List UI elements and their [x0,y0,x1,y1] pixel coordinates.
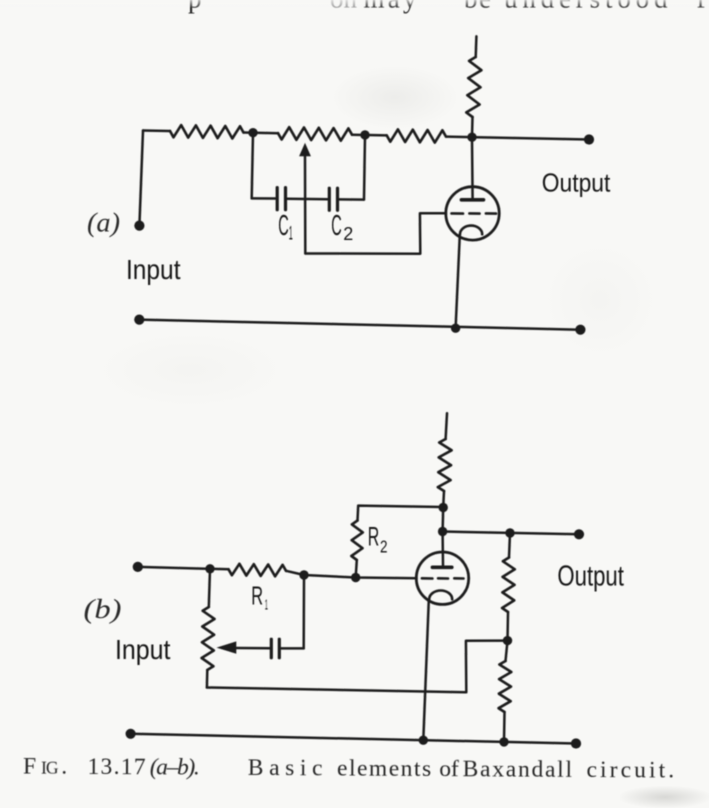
svg-text:2: 2 [343,223,353,244]
svg-text:C: C [278,210,289,242]
svg-text:elements: elements [337,756,431,783]
svg-text:(a): (a) [87,208,120,238]
svg-text:circuit.: circuit. [586,757,674,784]
svg-text:Input: Input [115,634,171,665]
svg-text:F: F [23,754,36,780]
svg-text:Basic: Basic [248,755,323,781]
svg-text:R: R [251,581,263,611]
svg-text:(a–b).: (a–b). [150,754,200,780]
svg-text:1: 1 [265,597,268,614]
svg-text:1: 1 [289,224,293,245]
svg-text:(b): (b) [84,594,122,624]
svg-text:2: 2 [380,537,388,557]
svg-text:Baxandall: Baxandall [463,756,573,783]
svg-text:of: of [439,756,459,782]
svg-text:IG: IG [41,758,59,778]
svg-text:C: C [331,210,342,242]
svg-text:.: . [61,754,67,780]
svg-text:Output: Output [557,560,624,592]
svg-text:Input: Input [126,254,181,285]
svg-text:Output: Output [542,168,611,198]
svg-text:R: R [368,522,380,552]
svg-text:13.17: 13.17 [87,754,145,780]
